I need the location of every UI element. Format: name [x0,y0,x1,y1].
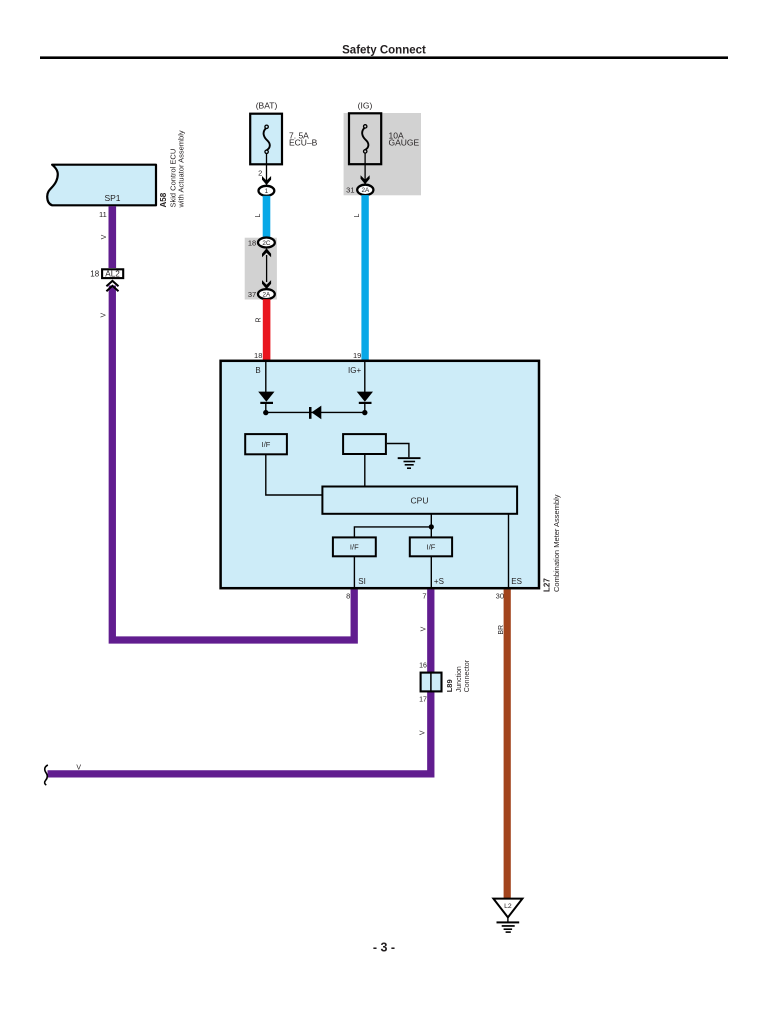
svg-text:V: V [420,626,427,631]
svg-text:(BAT): (BAT) [256,101,278,111]
svg-text:2A: 2A [361,187,370,194]
link line 2C to 2A [266,255,268,282]
svg-text:V: V [76,764,81,771]
arrow down to 2A [262,280,271,289]
svg-text:B: B [255,366,260,375]
cross line between branches [266,411,365,413]
connector AL2 [102,269,123,278]
connector 1 [259,186,275,196]
IG gray background [344,113,421,195]
IG+ lead [364,362,366,392]
svg-text:30: 30 [496,592,504,601]
svg-text:BR: BR [498,625,505,635]
fuse F2 GAUGE [349,113,381,164]
svg-text:V: V [101,234,108,239]
svg-text:L2: L2 [504,903,512,910]
wire BR from ES pin 30 to ground (brown) [504,590,511,899]
ground L2 [493,899,522,933]
svg-text:I/F: I/F [262,440,271,449]
link lines diodes to junction dots [265,404,267,413]
meter box L27 [221,361,539,588]
svg-text:R: R [255,317,262,322]
ECU block A58 SP1 [47,165,156,206]
svg-text:18: 18 [254,351,262,360]
arrow into connector 1 [262,176,271,185]
svg-text:+S: +S [434,577,444,586]
I/F box 3 [410,537,452,556]
connector 2A (meter side) [258,289,275,299]
CPU box [322,487,517,514]
svg-text:Junction: Junction [456,666,463,692]
svg-text:(IG): (IG) [358,101,373,111]
arrow up from 2C [262,248,271,257]
junction dot right [362,410,367,415]
wire L from connector 2A to pin 19 (light blue) [361,195,368,360]
svg-text:19: 19 [353,351,361,360]
svg-text:18: 18 [90,269,99,278]
link to bottom I/F boxes [354,527,431,539]
svg-text:ECU–B: ECU–B [289,138,318,148]
header rule [40,56,728,59]
svg-text:L: L [354,213,361,217]
svg-text:L89: L89 [445,679,454,692]
B lead [265,362,267,392]
svg-text:37: 37 [248,290,256,299]
svg-text:16: 16 [419,663,427,670]
svg-text:- 3 -: - 3 - [373,941,395,955]
svg-text:1: 1 [265,188,269,195]
svg-text:8: 8 [346,592,350,601]
chevrons below AL2 [106,281,118,291]
svg-text:17: 17 [419,697,427,704]
diode D2 [357,392,373,404]
svg-text:with Actuator Assembly: with Actuator Assembly [177,130,186,208]
svg-text:SI: SI [358,577,366,586]
svg-text:ES: ES [511,577,522,586]
A58 side label [159,130,186,208]
junction connector L89 [421,672,442,693]
connector 2A (IG side) [357,185,373,195]
svg-text:31: 31 [346,186,354,195]
svg-text:A58: A58 [159,192,168,207]
diode D3 (points left) [309,406,321,420]
svg-text:2: 2 [258,169,262,178]
junction dot below CPU [429,524,434,529]
svg-text:L27: L27 [543,578,552,592]
svg-text:11: 11 [99,210,107,219]
svg-text:Combination Meter Assembly: Combination Meter Assembly [552,494,561,592]
svg-text:SP1: SP1 [104,193,120,203]
svg-text:2C: 2C [262,240,271,247]
wire V from SP1 to AL2 (violet) [109,206,117,268]
svg-text:V: V [420,730,427,735]
svg-text:7: 7 [422,592,426,601]
connector block 2C/2A gray background [245,238,277,300]
I/F box 1 [245,434,287,454]
wire V from AL2 to SI pin 8 (violet) [112,286,354,641]
svg-text:L: L [255,213,262,217]
junction dot left [263,410,268,415]
I/F box 2 [333,537,376,556]
svg-text:CPU: CPU [411,495,429,505]
wire R from 2A to pin 18 (red) [263,299,271,360]
L89 side label [445,659,471,692]
wire control box to CPU [364,454,366,486]
torn end curl [45,765,48,785]
ES lead [508,514,510,589]
internal ground branch [387,444,421,470]
CPU to junction dot [430,514,432,527]
control box (unlabeled) [343,434,386,454]
arrow into connector 2A [361,175,370,184]
svg-text:V: V [101,313,108,318]
SI lead [353,557,355,590]
svg-text:I/F: I/F [427,543,436,552]
+S lead [430,557,432,590]
lead from fuse F2 to connector 2A [364,153,366,185]
fuse F1 ECU-B [250,114,282,165]
wire V from +S pin 7 down through L89 to torn end (violet) [48,590,431,774]
svg-text:18: 18 [248,238,256,247]
lead from fuse F1 to connector 1 [266,154,268,187]
svg-text:Safety Connect: Safety Connect [342,45,426,57]
svg-text:IG+: IG+ [348,366,361,375]
diode D1 [258,392,274,404]
svg-text:GAUGE: GAUGE [389,138,420,148]
connector 2C [258,238,275,248]
L27 side label [543,494,562,592]
svg-text:2A: 2A [263,291,272,298]
wire L from connector 1 to 2C (light blue) [263,196,271,238]
svg-text:I/F: I/F [350,543,359,552]
wire I/F1 to CPU [266,455,322,495]
svg-text:AL2: AL2 [105,269,120,278]
svg-text:Connector: Connector [464,659,471,692]
